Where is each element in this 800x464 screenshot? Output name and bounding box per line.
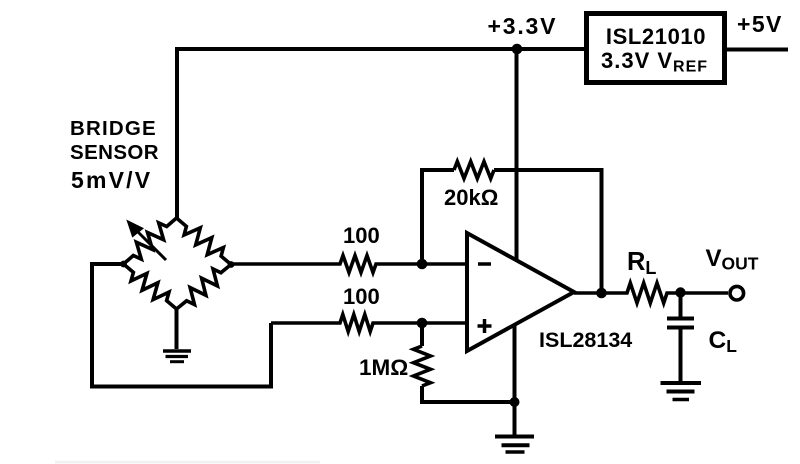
svg-text:BRIDGE: BRIDGE [70, 117, 157, 140]
svg-text:1MΩ: 1MΩ [359, 355, 408, 380]
svg-text:100: 100 [343, 284, 380, 309]
svg-text:5mV/V: 5mV/V [71, 167, 152, 193]
svg-text:+3.3V: +3.3V [488, 13, 558, 39]
svg-text:ISL28134: ISL28134 [539, 328, 632, 352]
svg-text:VOUT: VOUT [706, 245, 759, 274]
svg-text:CL: CL [709, 327, 738, 356]
svg-text:20kΩ: 20kΩ [444, 185, 498, 210]
svg-text:SENSOR: SENSOR [70, 141, 159, 164]
svg-text:100: 100 [343, 223, 380, 248]
svg-text:RL: RL [627, 248, 656, 278]
svg-text:ISL21010: ISL21010 [606, 24, 706, 49]
svg-text:+5V: +5V [737, 11, 783, 37]
